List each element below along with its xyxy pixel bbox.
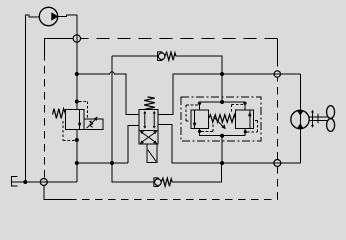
block top manifold bbox=[200, 102, 246, 110]
pilot dashed right-top bbox=[232, 104, 244, 112]
wire: valve B port down bbox=[158, 125, 300, 164]
node: block top tee bbox=[220, 161, 224, 165]
motor triangle top bbox=[297, 111, 303, 116]
reducing valve through line lower bbox=[76, 130, 78, 164]
pump output wire bbox=[58, 15, 77, 74]
wire: top bypass line right bbox=[176, 56, 222, 102]
crossover relief block enclosure bbox=[181, 97, 261, 141]
wire: valve B-return riser bbox=[128, 125, 139, 163]
check valve CV1 ball bbox=[158, 53, 165, 60]
wire: x=112 down to return bbox=[112, 163, 154, 182]
wire: motor vertical line bbox=[299, 74, 301, 163]
check valve CV1 spring bbox=[165, 52, 176, 60]
pump triangle bbox=[52, 13, 58, 20]
wire: valve A port to motor line bbox=[158, 74, 300, 115]
node: block bottom center bbox=[220, 134, 224, 138]
dashed drain line bottom bbox=[63, 121, 76, 141]
node: manifold left corner bbox=[198, 102, 201, 105]
port circle C3 (right bottom) bbox=[274, 160, 281, 167]
block bottom manifold bbox=[200, 129, 246, 136]
pilot dashed left-top bbox=[186, 105, 198, 121]
port circle C2 (right top) bbox=[274, 71, 280, 77]
block center outlet to bottom bbox=[221, 136, 223, 163]
boundary dashed top bbox=[81, 38, 278, 40]
motor triangle bottom bbox=[297, 123, 303, 128]
node: tank junction bbox=[23, 180, 27, 184]
block pilot arrow bbox=[214, 117, 224, 127]
block center spring bbox=[209, 115, 236, 123]
relief valve right square bbox=[236, 110, 254, 128]
wire: return line to riser bbox=[172, 163, 222, 182]
wire: top bypass line bbox=[112, 55, 157, 57]
valve position b crossed arrows bbox=[140, 131, 157, 144]
node: block top center bbox=[220, 100, 224, 104]
dashed pilot line top bbox=[79, 102, 88, 120]
reducing valve flow arrow bbox=[78, 123, 81, 128]
port circle C1 (top left) bbox=[73, 35, 80, 42]
pressure reducing valve: through line upper bbox=[76, 74, 78, 110]
solenoid box bbox=[147, 144, 157, 162]
wire: vertical x=112 bbox=[111, 56, 113, 163]
node: pump tee bbox=[75, 72, 79, 76]
pilot dashed right-bottom bbox=[247, 120, 258, 131]
node: drain tee bbox=[75, 138, 79, 142]
check valve CV1 seat bbox=[158, 52, 163, 61]
pilot dashed left-bottom bbox=[201, 123, 213, 132]
directional valve divider bbox=[139, 129, 158, 131]
check valve CV2 ball bbox=[155, 179, 162, 186]
block center feed from top bbox=[221, 56, 223, 102]
wire: pressure line to valve P port bbox=[114, 74, 139, 115]
boundary dashed bottom bbox=[69, 199, 277, 201]
pilot box spring bbox=[90, 121, 93, 128]
shaft rotation arrow bbox=[312, 112, 314, 127]
motor shaft bbox=[309, 117, 328, 121]
node: x112 tee bbox=[110, 161, 114, 165]
pump supply wire left bbox=[25, 15, 39, 182]
return line check valve CV2 seat bbox=[154, 178, 159, 187]
directional valve body V2 bbox=[139, 110, 158, 145]
tank return wire bbox=[12, 181, 77, 183]
port circle C4 (bottom left) bbox=[40, 179, 47, 186]
node: bottom left pilot tap bbox=[198, 130, 201, 133]
node: pilot tap bbox=[75, 100, 79, 104]
pressure reducing valve body V1 bbox=[66, 110, 85, 130]
left square flow line + arrow bbox=[194, 110, 196, 128]
hydraulic motor M1 bbox=[291, 110, 309, 128]
solenoid slash bbox=[148, 150, 156, 162]
check valve CV2 spring bbox=[161, 178, 172, 186]
pump circle P1 bbox=[39, 7, 57, 25]
reducing valve pilot box bbox=[84, 119, 103, 130]
fan blade lower bbox=[327, 119, 335, 132]
reducing valve spring bbox=[53, 109, 66, 119]
relief valve left square bbox=[191, 110, 209, 128]
valve position a flow arrows bbox=[143, 111, 155, 129]
boundary bottom solid corner bbox=[44, 186, 69, 200]
wire: bottom-left riser bbox=[76, 163, 78, 182]
node: bypass/pressure tee bbox=[220, 72, 224, 76]
boundary dashed right side bbox=[276, 39, 278, 200]
wire: mid line y=163 bbox=[77, 162, 128, 164]
fan blade upper bbox=[327, 106, 335, 119]
node: bottom right pilot tap bbox=[244, 130, 247, 133]
pilot box adjust arrow bbox=[87, 119, 96, 128]
boundary dashed left side bbox=[44, 39, 73, 179]
right square flow line + arrow bbox=[249, 110, 251, 128]
wire hop over x=112 bbox=[110, 72, 114, 74]
reducing valve flow line bbox=[79, 110, 81, 130]
shaft tick bbox=[317, 114, 319, 124]
node: manifold right corner bbox=[243, 102, 246, 105]
wire: pressure line y=74 left segment bbox=[77, 73, 110, 75]
directional valve spring bbox=[144, 97, 155, 109]
node: bottom-left tee bbox=[75, 161, 79, 165]
tank symbol T bbox=[11, 176, 17, 187]
